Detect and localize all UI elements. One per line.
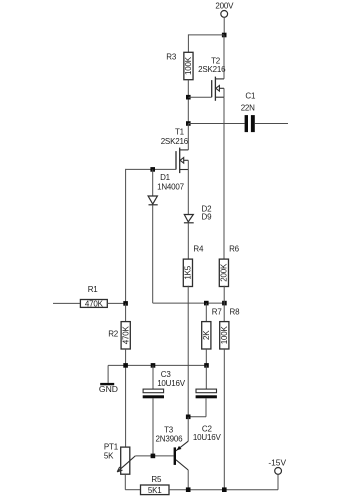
svg-text:200V: 200V [215, 1, 234, 10]
svg-text:GND: GND [99, 384, 118, 394]
svg-text:10U16V: 10U16V [157, 379, 186, 388]
svg-text:PT1: PT1 [104, 442, 119, 451]
svg-text:C3: C3 [161, 370, 172, 379]
svg-text:R3: R3 [166, 53, 177, 62]
svg-text:D9: D9 [202, 212, 213, 221]
svg-text:2SK216: 2SK216 [198, 65, 226, 74]
svg-text:100K: 100K [184, 56, 193, 75]
svg-text:R1: R1 [88, 285, 99, 294]
svg-text:470K: 470K [121, 325, 130, 344]
svg-text:R6: R6 [229, 244, 240, 253]
svg-text:2SK216: 2SK216 [161, 137, 189, 146]
svg-text:200K: 200K [219, 263, 228, 282]
svg-text:1K5: 1K5 [183, 265, 192, 279]
svg-text:22N: 22N [241, 104, 255, 113]
svg-text:R4: R4 [193, 244, 204, 253]
svg-text:2K: 2K [202, 330, 211, 340]
svg-text:5K1: 5K1 [148, 486, 162, 495]
svg-text:R2: R2 [108, 330, 119, 339]
svg-text:T3: T3 [164, 426, 174, 435]
svg-text:10U16V: 10U16V [193, 433, 222, 442]
svg-text:2N3906: 2N3906 [156, 435, 184, 444]
svg-text:R5: R5 [151, 475, 162, 484]
svg-text:C1: C1 [245, 91, 256, 100]
svg-text:470K: 470K [85, 299, 104, 308]
svg-text:T1: T1 [175, 128, 185, 137]
svg-text:-15V: -15V [268, 457, 286, 467]
svg-text:1N4007: 1N4007 [157, 183, 185, 192]
svg-text:R8: R8 [230, 307, 241, 316]
svg-text:D1: D1 [160, 173, 171, 182]
svg-text:R7: R7 [212, 307, 223, 316]
svg-text:100K: 100K [220, 325, 229, 344]
svg-text:5K: 5K [104, 451, 114, 460]
